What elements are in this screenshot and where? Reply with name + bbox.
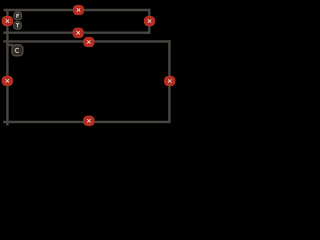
marker M8	[83, 116, 94, 126]
wire net A top horizontal	[4, 9, 151, 11]
marker M6	[2, 76, 13, 86]
wire right-top vertical	[148, 9, 150, 34]
marker M5	[83, 37, 94, 47]
wire stub to C	[6, 44, 13, 46]
badge C	[12, 45, 23, 56]
wire net C horizontal	[3, 40, 170, 42]
marker M1	[2, 16, 13, 26]
wire right vertical	[168, 40, 170, 123]
marker M4	[73, 28, 84, 38]
badge F	[14, 12, 22, 20]
wire net B middle horizontal	[3, 32, 150, 34]
marker M2	[73, 5, 84, 15]
wire bottom horizontal	[3, 121, 171, 123]
marker M7	[164, 76, 175, 86]
wire left vertical	[6, 9, 8, 126]
badge T	[14, 22, 22, 30]
marker M3	[144, 16, 155, 26]
